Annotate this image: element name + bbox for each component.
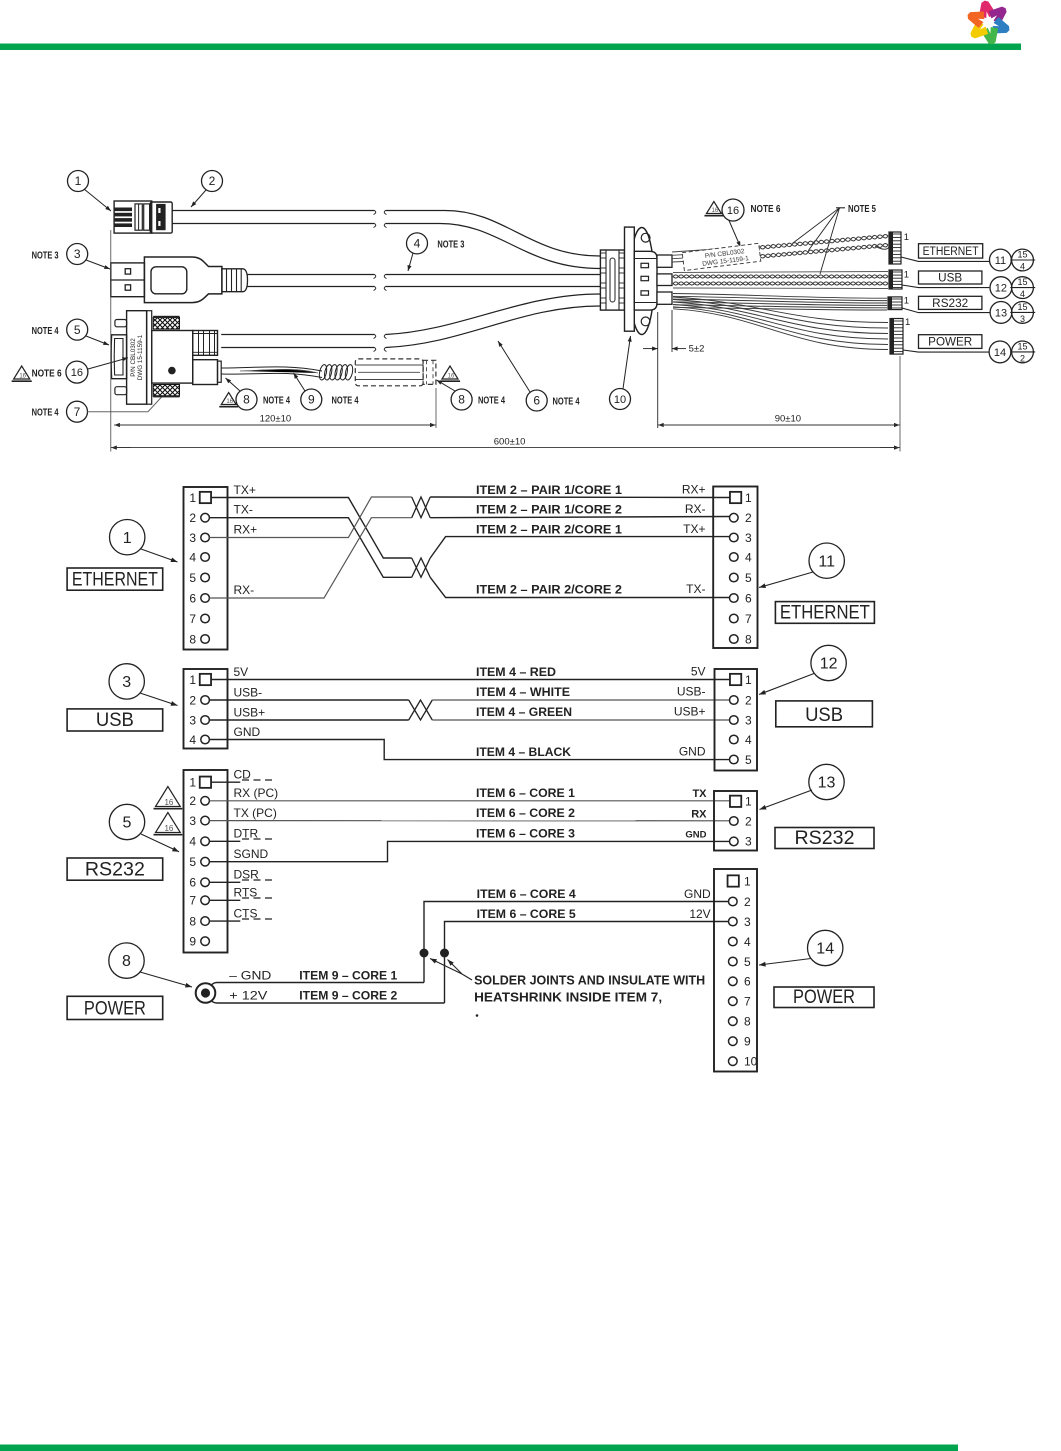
balloon 11 [809, 543, 844, 578]
ETHERNET label box right [775, 602, 874, 624]
svg-text:POWER: POWER [928, 336, 972, 348]
svg-text:4: 4 [189, 733, 196, 747]
wire RTS (unused, dashed) [209, 899, 240, 901]
svg-text:5: 5 [189, 855, 196, 869]
USB A connector item 3 [111, 263, 145, 297]
DB9 RS232 connector item 5 with hood [111, 335, 127, 379]
balloon 2 (ethernet cable) [202, 171, 223, 192]
svg-text:4: 4 [189, 835, 196, 849]
svg-text:4: 4 [745, 550, 752, 564]
svg-text:ITEM 2 – PAIR 1/CORE 1: ITEM 2 – PAIR 1/CORE 1 [476, 483, 622, 497]
svg-text:12: 12 [995, 282, 1007, 294]
svg-text:DWG 15-1159-1: DWG 15-1159-1 [137, 334, 144, 380]
svg-text:6: 6 [744, 975, 751, 989]
power barrel connector item 8 (dashed) [355, 359, 423, 386]
USB label box right [776, 701, 873, 727]
svg-text:8: 8 [745, 632, 752, 646]
svg-text:GND: GND [234, 725, 261, 739]
svg-text:TX-: TX- [234, 503, 253, 517]
svg-text:13: 13 [818, 775, 836, 792]
svg-text:4: 4 [1020, 289, 1025, 299]
svg-text:11: 11 [995, 255, 1006, 267]
svg-text:P/N CBL0302: P/N CBL0302 [130, 338, 137, 377]
svg-text:1: 1 [745, 491, 752, 505]
svg-text:TX+: TX+ [683, 522, 705, 536]
svg-text:2: 2 [209, 174, 216, 188]
svg-text:RS232: RS232 [795, 828, 855, 849]
usb left connector (item 3) [184, 669, 228, 749]
svg-text:7: 7 [74, 405, 81, 419]
svg-text:GND: GND [684, 887, 711, 901]
warning triangle + balloon 16 + NOTE 6 (cable label) [706, 202, 721, 214]
svg-text:TX: TX [692, 788, 707, 800]
svg-text:RS232: RS232 [85, 859, 145, 880]
balloon 3 (usb connector) [109, 664, 144, 699]
svg-text:USB: USB [938, 273, 962, 285]
svg-text:GND: GND [679, 744, 706, 758]
wire green to right pin3 [432, 719, 730, 721]
power output comb connector [890, 319, 903, 355]
svg-text:ITEM 6 – CORE 5: ITEM 6 – CORE 5 [477, 907, 576, 921]
svg-text:1: 1 [904, 270, 909, 281]
svg-text:7: 7 [189, 612, 196, 626]
svg-text:HEATSHRINK INSIDE ITEM 7,: HEATSHRINK INSIDE ITEM 7, [474, 990, 662, 1004]
svg-text:NOTE 4: NOTE 4 [32, 326, 59, 337]
ethernet twisted-pair braid (item 2 tails) [672, 246, 760, 252]
USB cable item 4 (straight to breakout) [248, 274, 375, 276]
svg-text:7: 7 [189, 894, 196, 908]
svg-text:ITEM 6 – CORE 2: ITEM 6 – CORE 2 [476, 806, 575, 820]
wire ITEM 6 CORE 5 (12V) to power pin3 [445, 922, 730, 1004]
warning triangles (rs232) [156, 787, 181, 807]
POWER wire bundle (curving down) [673, 297, 888, 323]
svg-text:16: 16 [164, 798, 173, 807]
wire ITEM 6 CORE 4 (GND) to power pin2 [424, 902, 729, 983]
ethernet cable item 2 (from RJ45 to breakout) [172, 210, 374, 212]
RS232 output label box + leader [902, 308, 990, 313]
svg-text:2: 2 [744, 895, 751, 909]
power barrel jack symbol [196, 983, 216, 1003]
svg-text:16: 16 [448, 374, 455, 380]
coil spring strain relief item 9 [318, 364, 354, 381]
NOTE 5 with leader lines to twisted cables [836, 207, 845, 209]
P/N label on cable (rotated, dashed outline) [682, 243, 761, 270]
svg-text:7: 7 [745, 612, 752, 626]
USB twisted braid [673, 272, 888, 273]
svg-text:16: 16 [226, 399, 233, 405]
svg-text:12V: 12V [689, 907, 710, 921]
svg-text:1: 1 [189, 776, 196, 790]
ETHERNET output label box + leader [901, 257, 989, 261]
svg-text:USB-: USB- [234, 686, 263, 700]
svg-text:3: 3 [189, 814, 196, 828]
svg-text:ETHERNET: ETHERNET [780, 603, 870, 624]
svg-text:NOTE 6: NOTE 6 [751, 204, 781, 215]
RS232 wire bundle [673, 294, 887, 299]
svg-text:6: 6 [745, 591, 752, 605]
wire CD (unused, dashed) [211, 781, 240, 783]
svg-text:USB+: USB+ [234, 706, 266, 720]
balloon 8 (power jack) [109, 943, 144, 978]
svg-text:TX (PC): TX (PC) [234, 806, 277, 820]
dimension: 90±10 [899, 356, 901, 452]
balloon 13 [809, 764, 844, 799]
svg-text:TX-: TX- [686, 582, 705, 596]
dimension: 120±10 [110, 230, 112, 452]
svg-text:16: 16 [19, 374, 26, 380]
svg-text:8: 8 [243, 393, 250, 407]
svg-text:5±2: 5±2 [689, 344, 705, 355]
svg-text:8: 8 [744, 1015, 751, 1029]
svg-text:3: 3 [1020, 314, 1025, 324]
svg-text:3: 3 [745, 835, 752, 849]
svg-text:1: 1 [123, 530, 132, 547]
breakout strain-relief comb item 10 [600, 250, 624, 310]
rs232 output comb connector [888, 297, 902, 310]
ETHERNET label box left [67, 568, 163, 590]
svg-text:16: 16 [712, 208, 719, 214]
svg-text:ETHERNET: ETHERNET [72, 569, 158, 590]
POWER label box left [67, 996, 163, 1019]
usb twist symbol [409, 700, 433, 720]
balloon 1 (ethernet connector) [110, 520, 145, 555]
svg-text:7: 7 [744, 995, 751, 1009]
top green header bar [0, 44, 1021, 51]
svg-text:NOTE 6: NOTE 6 [32, 368, 62, 379]
svg-text:8: 8 [458, 393, 465, 407]
wire to right pin6 (PAIR 2/CORE 2) [430, 577, 730, 597]
balloon row: 8 NOTE 4 / 9 NOTE 4 / 8 NOTE 4 / 6 NOTE 4 / 10 [221, 393, 236, 405]
svg-text:RX: RX [691, 809, 707, 821]
thin power cable item 9 (coiled) from DB9 hood [221, 367, 322, 371]
svg-text:5: 5 [745, 753, 752, 767]
svg-text:15: 15 [1017, 302, 1027, 312]
wire to right pin2 (PAIR 1/CORE 2) [430, 517, 730, 518]
RS232 label box right [775, 828, 874, 849]
svg-text:RX-: RX- [685, 502, 706, 516]
svg-text:1: 1 [189, 491, 196, 505]
svg-text:NOTE 3: NOTE 3 [437, 240, 464, 251]
svg-text:1: 1 [745, 795, 752, 809]
svg-text:4: 4 [1020, 262, 1025, 272]
svg-text:ITEM 4 – BLACK: ITEM 4 – BLACK [476, 745, 571, 759]
svg-text:16: 16 [164, 824, 173, 833]
wire to right pin3 (PAIR 2/CORE 1) [430, 537, 730, 558]
svg-text:3: 3 [189, 713, 196, 727]
svg-text:NOTE 4: NOTE 4 [32, 407, 59, 418]
svg-text:4: 4 [745, 733, 752, 747]
svg-text:RX-: RX- [234, 583, 255, 597]
svg-text:USB: USB [96, 710, 134, 731]
svg-text:ETHERNET: ETHERNET [923, 246, 979, 258]
svg-text:SGND: SGND [234, 847, 269, 861]
balloon 12t + 15/4 [990, 277, 1012, 299]
svg-text:TX+: TX+ [234, 483, 256, 497]
usb output comb connector [889, 270, 902, 289]
svg-text:1: 1 [905, 317, 910, 328]
svg-text:5: 5 [74, 323, 81, 337]
breakout oval flange [630, 228, 654, 335]
wire RX (PC) to right pin1 [209, 800, 730, 802]
breakout flange screw holes [641, 233, 650, 242]
svg-text:ITEM 2 – PAIR 2/CORE 1: ITEM 2 – PAIR 2/CORE 1 [476, 523, 622, 537]
twist symbol pair2 [412, 558, 431, 577]
svg-text:POWER: POWER [84, 998, 146, 1019]
wire +12V ITEM 9 CORE 2 [211, 1001, 445, 1004]
POWER output label box + leader [903, 350, 989, 352]
svg-text:+ 12V: + 12V [229, 989, 267, 1003]
balloon 5 (rs232 connector) [109, 804, 144, 839]
svg-text:3: 3 [745, 531, 752, 545]
wire CTS (unused, dashed) [209, 920, 240, 922]
rs232 left connector (item 5) [184, 770, 228, 953]
svg-text:5: 5 [745, 571, 752, 585]
svg-text:ITEM 6 – CORE 4: ITEM 6 – CORE 4 [477, 887, 576, 901]
svg-text:2: 2 [745, 693, 752, 707]
svg-text:4: 4 [414, 237, 421, 251]
svg-text:ITEM 2 – PAIR 2/CORE 2: ITEM 2 – PAIR 2/CORE 2 [476, 583, 622, 597]
svg-text:ITEM 9 – CORE 1: ITEM 9 – CORE 1 [299, 968, 397, 982]
svg-text:8: 8 [189, 632, 196, 646]
svg-text:5: 5 [189, 571, 196, 585]
svg-text:ITEM 9 – CORE 2: ITEM 9 – CORE 2 [299, 989, 397, 1003]
svg-text:USB+: USB+ [674, 705, 706, 719]
svg-text:NOTE 4: NOTE 4 [263, 395, 290, 406]
svg-text:ITEM 4 – WHITE: ITEM 4 – WHITE [476, 685, 570, 699]
svg-text:8: 8 [189, 914, 196, 928]
svg-text:120±10: 120±10 [260, 414, 292, 425]
svg-text:3: 3 [189, 531, 196, 545]
balloon 1 (RJ45 connector) [68, 171, 89, 192]
svg-text:USB: USB [805, 705, 843, 726]
svg-text:5V: 5V [234, 665, 249, 679]
svg-text:ITEM 4 – RED: ITEM 4 – RED [476, 665, 556, 679]
svg-text:12: 12 [820, 656, 838, 673]
wire white to right pin2 [432, 699, 730, 701]
svg-text:3: 3 [745, 713, 752, 727]
svg-text:10: 10 [614, 394, 626, 406]
svg-text:9: 9 [744, 1035, 751, 1049]
ethernet left connector (item 1) [184, 487, 228, 650]
svg-text:RX+: RX+ [234, 523, 258, 537]
svg-text:SOLDER JOINTS AND INSULATE WIT: SOLDER JOINTS AND INSULATE WITH [474, 973, 705, 987]
balloon 11t + 15/4 [990, 249, 1012, 271]
company logo: six-arm ribbon star [961, 0, 1015, 49]
wire TX (PC) to right pin2 [209, 820, 730, 822]
balloon 4 (USB cable) with NOTE 3 [407, 233, 428, 254]
svg-text:9: 9 [189, 935, 196, 949]
svg-text:13: 13 [995, 307, 1007, 319]
POWER label box right [774, 987, 874, 1008]
RS232 cable item 6 (from DB9 to breakout) [221, 334, 374, 336]
svg-text:8: 8 [122, 953, 131, 970]
svg-text:6: 6 [189, 591, 196, 605]
svg-text:90±10: 90±10 [775, 414, 801, 425]
svg-text:16: 16 [727, 205, 739, 217]
svg-text:1: 1 [904, 232, 909, 243]
svg-text:NOTE 4: NOTE 4 [478, 395, 505, 406]
solder joint dot 1 [420, 949, 429, 958]
RS232 label box left [67, 858, 163, 880]
svg-text:1: 1 [904, 296, 909, 307]
svg-text:RX+: RX+ [682, 483, 706, 497]
breakout cable stubs [657, 255, 672, 267]
svg-text:GND: GND [685, 830, 706, 841]
svg-text:2: 2 [189, 511, 196, 525]
svg-text:5: 5 [744, 955, 751, 969]
wire DTR (unused, dashed) [209, 840, 240, 842]
power right connector (item 14) pins 1-10 [714, 869, 757, 1072]
svg-text:1: 1 [189, 673, 196, 687]
svg-text:2: 2 [745, 511, 752, 525]
USB label box left [67, 709, 163, 731]
svg-text:2: 2 [745, 814, 752, 828]
svg-text:11: 11 [818, 553, 835, 570]
warning triangle + NOTE 6 + balloon 16 (label on DB9) [14, 366, 30, 379]
dimension: 600±10 [111, 447, 131, 449]
wire DSR (unused, dashed) [209, 881, 240, 883]
svg-text:5V: 5V [691, 665, 706, 679]
rs232 right connector (item 13) [714, 791, 757, 851]
balloon 12 [811, 645, 846, 680]
svg-text:1: 1 [744, 874, 751, 888]
usb right connector (item 12) [715, 669, 758, 771]
svg-text:ITEM 4 – GREEN: ITEM 4 – GREEN [476, 705, 572, 719]
ethernet output comb connector [889, 232, 901, 264]
ethernet right connector (item 11) [713, 487, 757, 649]
svg-text:3: 3 [122, 674, 131, 691]
svg-text:ITEM 2 – PAIR 1/CORE 2: ITEM 2 – PAIR 1/CORE 2 [476, 503, 622, 517]
svg-text:15: 15 [1017, 277, 1027, 287]
svg-text:600±10: 600±10 [494, 436, 526, 447]
svg-text:POWER: POWER [793, 987, 855, 1008]
svg-text:16: 16 [71, 367, 83, 379]
svg-text:NOTE 5: NOTE 5 [848, 204, 876, 215]
svg-text:15: 15 [1017, 250, 1027, 260]
svg-text:– GND: – GND [229, 968, 271, 982]
svg-text:14: 14 [816, 941, 834, 958]
svg-text:6: 6 [533, 394, 540, 408]
svg-text:ITEM 6 – CORE 3: ITEM 6 – CORE 3 [476, 827, 575, 841]
bottom green footer bar [0, 1445, 958, 1451]
svg-text:9: 9 [308, 393, 315, 407]
svg-text:10: 10 [744, 1055, 758, 1069]
wire -GND ITEM 9 CORE 1 [211, 983, 424, 986]
balloon 13t + 15/3 [990, 302, 1012, 324]
svg-text:NOTE 4: NOTE 4 [332, 395, 359, 406]
svg-text:5: 5 [123, 815, 132, 832]
svg-text:6: 6 [189, 876, 196, 890]
svg-text:NOTE 4: NOTE 4 [553, 396, 580, 407]
svg-text:1: 1 [745, 673, 752, 687]
svg-text:NOTE 3: NOTE 3 [32, 250, 59, 261]
svg-text:ITEM 6 – CORE 1: ITEM 6 – CORE 1 [476, 786, 575, 800]
svg-text:4: 4 [744, 935, 751, 949]
RJ45 connector item 1 [114, 201, 152, 233]
warning triangle (right of barrel) [442, 366, 458, 379]
svg-text:1: 1 [75, 174, 82, 188]
svg-text:2: 2 [1020, 353, 1025, 363]
svg-text:4: 4 [189, 550, 196, 564]
svg-text:14: 14 [994, 347, 1006, 359]
USB output label box + leader [902, 285, 989, 288]
twist symbol pair1 [412, 497, 431, 518]
breakout D-sub body [634, 251, 657, 310]
wire to right pin1 (PAIR 1/CORE 1) [430, 496, 730, 499]
svg-text:CTS: CTS [234, 906, 258, 920]
wire SGND to right pin3 [209, 841, 730, 861]
svg-text:15: 15 [1017, 341, 1027, 351]
svg-text:3: 3 [744, 915, 751, 929]
solder joint dot 2 [440, 949, 449, 958]
svg-text:2: 2 [189, 693, 196, 707]
balloon 14 [808, 930, 843, 965]
svg-text:2: 2 [189, 794, 196, 808]
dimension: 5±2 [657, 312, 659, 428]
svg-text:USB-: USB- [677, 685, 706, 699]
balloon 14t + 15/2 [989, 341, 1011, 363]
svg-text:3: 3 [74, 247, 81, 261]
svg-text:RX (PC): RX (PC) [234, 786, 279, 800]
breakout flange plate [625, 227, 635, 331]
svg-text:RS232: RS232 [932, 298, 968, 310]
